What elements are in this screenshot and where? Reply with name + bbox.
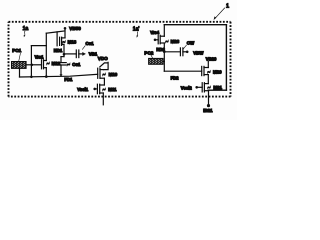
- wire M21 gate lead: [197, 86, 203, 88]
- junction arrow Cc1 to rail: [60, 74, 63, 76]
- wire M11 gate lead: [95, 88, 98, 90]
- svg-text:M11: M11: [108, 87, 117, 92]
- capacitor Cs1: [76, 50, 79, 58]
- wire M12 source to rail: [45, 68, 47, 77]
- svg-text:CW: CW: [187, 41, 195, 46]
- svg-text:1a': 1a': [133, 27, 140, 33]
- wire M21 source down to IB21: [208, 91, 210, 106]
- wire M12 gate lead: [32, 64, 42, 66]
- node VB50 dot: [64, 27, 67, 30]
- wire PC1 bottom lead: [19, 69, 21, 77]
- label 1a' squiggle arrow: [136, 32, 139, 36]
- svg-text:PC2: PC2: [144, 51, 153, 56]
- svg-text:Cs1: Cs1: [86, 41, 95, 46]
- svg-text:M13: M13: [68, 39, 77, 44]
- node VBW dot: [186, 51, 189, 54]
- photoconductor PC1: [12, 62, 27, 69]
- svg-text:Vsel2: Vsel2: [181, 85, 193, 90]
- wire M11 source down: [102, 93, 104, 105]
- svg-text:FD2: FD2: [171, 75, 180, 80]
- transistor M21: [204, 83, 208, 85]
- label 1 leader arrow: [215, 8, 225, 19]
- wire PC1 right lead: [27, 64, 32, 66]
- svg-text:Cc1: Cc1: [72, 62, 81, 67]
- wire to VB1: [79, 53, 83, 55]
- svg-text:IB21: IB21: [203, 108, 213, 113]
- svg-text:~: ~: [47, 61, 50, 66]
- svg-text:PC1: PC1: [12, 48, 21, 53]
- photoconductor PC1 leader: [19, 53, 21, 60]
- wire M20 source to M21 drain: [207, 75, 209, 84]
- capacitor CW: [180, 48, 183, 56]
- wire Cs1 branch: [64, 53, 76, 55]
- svg-text:Vrs4: Vrs4: [150, 30, 160, 35]
- capacitor Cc1: [57, 63, 66, 65]
- svg-text:VB20: VB20: [206, 56, 217, 61]
- transistor M11: [100, 84, 105, 86]
- wire PC2 right lead: [163, 60, 164, 62]
- node Vsel2 dot: [195, 86, 198, 89]
- svg-text:1: 1: [226, 3, 229, 9]
- rail FD1: [20, 74, 98, 77]
- svg-text:~: ~: [208, 70, 211, 75]
- svg-text:M23: M23: [171, 39, 180, 44]
- wire V5 left column: [30, 46, 32, 77]
- node ND1 dot: [63, 53, 66, 56]
- wire CW right lead: [183, 51, 187, 53]
- capacitor Cc1 top lead: [63, 54, 65, 56]
- wire VDO flag: [100, 62, 108, 69]
- photoconductor PC2 leader: [151, 55, 153, 58]
- wire M23 gate lead: [155, 39, 158, 41]
- node Vrs4 dot: [154, 39, 157, 42]
- wire VB20 stub: [207, 61, 209, 67]
- node IB21 dot: [207, 104, 210, 107]
- svg-text:~: ~: [103, 72, 106, 77]
- svg-text:~: ~: [103, 87, 106, 92]
- wire CW left lead: [164, 51, 180, 53]
- wire M23 drain riser to top rail: [163, 25, 165, 37]
- svg-text:M21: M21: [213, 85, 222, 90]
- transistor M12: [42, 60, 44, 69]
- transistor M20: [202, 66, 204, 75]
- transistor M10: [98, 68, 100, 78]
- svg-text:VDO: VDO: [98, 56, 108, 61]
- junction dot rail/V5: [30, 76, 33, 79]
- svg-text:1a: 1a: [23, 26, 29, 32]
- arrow VB1: [82, 52, 86, 56]
- junction dot CW tap: [163, 51, 166, 54]
- wire M13 gate drop V1: [56, 32, 58, 46]
- wire H2: [31, 45, 46, 47]
- svg-text:ND1: ND1: [54, 48, 63, 53]
- node Vsel1 dot: [93, 88, 96, 91]
- wire FD2 horizontal to M20 gate: [164, 70, 201, 72]
- transistor M23: [158, 35, 160, 44]
- wire VB50 stub down to M13 drain: [64, 28, 66, 38]
- capacitor Cc1 bottom lead: [60, 65, 62, 75]
- svg-text:Vrs1: Vrs1: [35, 54, 45, 59]
- wire H1 horizontal: [46, 31, 65, 33]
- svg-text:~: ~: [208, 85, 211, 90]
- wire M10 source to M11 drain: [103, 78, 105, 85]
- outer dashed box (device 1): [9, 22, 231, 97]
- photoconductor PC2: [149, 58, 163, 64]
- svg-text:VBW: VBW: [193, 51, 204, 56]
- svg-text:~: ~: [166, 39, 169, 44]
- svg-text:M20: M20: [213, 70, 222, 75]
- svg-text:Vsel1: Vsel1: [77, 87, 89, 92]
- wire top rail: [164, 25, 226, 91]
- wire M23 source column: [163, 43, 165, 71]
- wire M13 source down to node ND1: [63, 44, 65, 54]
- wire V4 M12 drain riser: [45, 33, 47, 60]
- svg-text:~: ~: [67, 62, 70, 67]
- transistor M13: [60, 37, 62, 45]
- capacitor CW leader: [184, 45, 187, 48]
- capacitor Cs1 leader: [82, 46, 85, 50]
- svg-text:FD1: FD1: [64, 77, 73, 82]
- svg-text:~: ~: [63, 39, 66, 44]
- junction dot PC1/M12 gate: [31, 64, 34, 67]
- svg-text:RD2: RD2: [156, 47, 165, 52]
- svg-text:VB1: VB1: [89, 51, 98, 56]
- svg-text:VB50: VB50: [69, 26, 81, 31]
- junction dot rail/M12 source: [45, 75, 48, 78]
- svg-text:M10: M10: [109, 72, 118, 77]
- label 1a squiggle arrow: [23, 31, 26, 35]
